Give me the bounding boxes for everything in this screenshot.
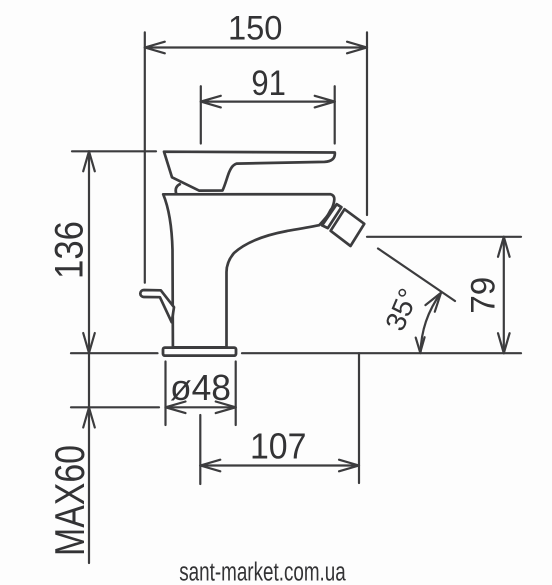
wire: extension line right of 150 dim xyxy=(366,32,368,215)
svg-text:107: 107 xyxy=(250,426,307,467)
wire: extension line right of o48 xyxy=(235,362,237,426)
dimension line 150 xyxy=(145,46,367,48)
dimension line o48 xyxy=(166,406,236,408)
svg-text:91: 91 xyxy=(251,64,286,103)
wire: top reference line at faucet top xyxy=(72,150,156,152)
svg-text:150: 150 xyxy=(228,10,283,48)
base plate xyxy=(163,348,236,356)
handle lever xyxy=(164,152,335,191)
wire: extension line right of 91 dim xyxy=(334,86,336,143)
dimension line 107 xyxy=(200,464,359,466)
wire: extension line right of 107 xyxy=(358,353,360,483)
svg-text:ø48: ø48 xyxy=(170,367,231,408)
label 35 degrees xyxy=(379,284,424,335)
wire: top right reference line y=236.8 xyxy=(367,236,521,238)
dimension line MAX60 vertical xyxy=(88,353,90,563)
label 136 xyxy=(48,221,92,279)
wire: 35 degree reference line xyxy=(378,249,455,302)
svg-text:136: 136 xyxy=(48,221,92,279)
aerator body xyxy=(331,209,365,246)
svg-text:sant-market.com.ua: sant-market.com.ua xyxy=(179,559,346,585)
label MAX60 xyxy=(46,445,93,556)
wire: extension line left of o48 xyxy=(164,362,166,426)
wire: bottom reference line y=353 xyxy=(71,352,158,354)
svg-text:79: 79 xyxy=(465,277,503,314)
cartridge dome arc xyxy=(176,184,181,194)
wire: extension line left of 107 (center line) xyxy=(199,415,201,484)
aerator clip detail xyxy=(326,207,338,221)
dimension line 79 vertical xyxy=(503,237,505,353)
pop-up lever rod xyxy=(140,290,174,322)
wire: reference line y=407.5 left part xyxy=(71,406,159,408)
dimension line 91 xyxy=(201,100,335,102)
wire: 35 degree arc with arrows xyxy=(421,293,442,353)
wire: extension line left of 150 dim xyxy=(144,32,146,282)
label 79 xyxy=(465,277,503,314)
wire: extension line left of 91 dim xyxy=(200,86,202,143)
svg-text:MAX60: MAX60 xyxy=(46,445,93,556)
dimension line 136 vertical xyxy=(88,151,90,353)
faucet body outline xyxy=(140,152,364,356)
aerator collar xyxy=(322,204,341,228)
